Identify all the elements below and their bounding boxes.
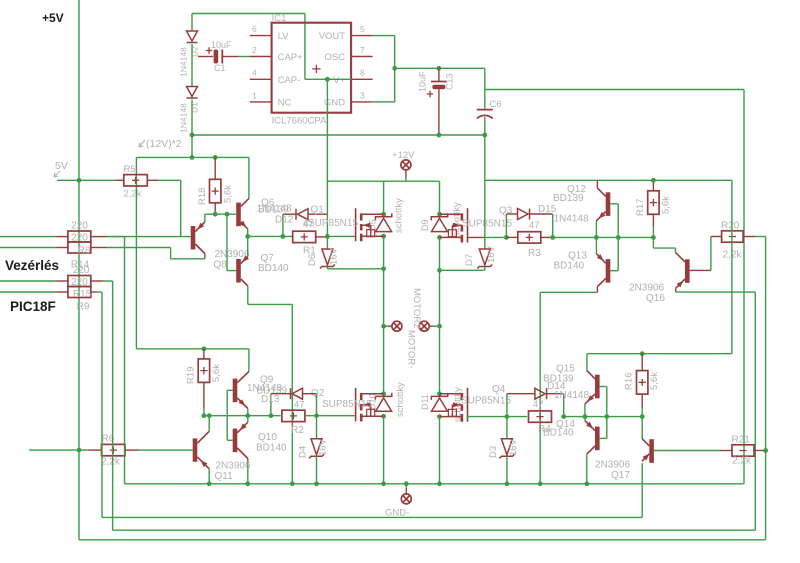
- wire R15 output corner to bus2 column: [103, 280, 113, 282]
- resistor R8 220: [68, 231, 91, 242]
- wire GND pad stub: [405, 484, 407, 488]
- transistor Q17 2N3906: [649, 439, 654, 463]
- svg-text:16V: 16V: [318, 438, 329, 456]
- transistor Q13 BD140: [606, 259, 611, 283]
- resistor R17 5,6k: [652, 180, 654, 191]
- wire R1 right to gate column: [316, 236, 328, 238]
- junction 12V line to C6 column: [482, 133, 487, 138]
- wire jog from control resistor R14 output: [107, 247, 171, 249]
- MOSFET substrate arrow: [452, 404, 462, 406]
- wire Q16 base column up to R20: [710, 237, 712, 271]
- svg-text:IC1: IC1: [272, 13, 287, 24]
- diode D1 1N4148: [187, 87, 198, 99]
- svg-text:220: 220: [71, 221, 88, 232]
- junction R18 top: [213, 155, 218, 160]
- svg-text:Q10: Q10: [258, 432, 277, 443]
- diode D12 1N4148: [283, 213, 296, 215]
- wire Q3 gate lead: [468, 236, 485, 238]
- wire emitter column bottom-left pair: [247, 409, 249, 423]
- wire D1 to (12V)*2 node: [191, 100, 193, 136]
- svg-text:ICL7660CPA: ICL7660CPA: [272, 116, 327, 127]
- wire gate column IC pin8 down to +12V rail: [326, 79, 328, 214]
- wire motor pad2 stub: [433, 325, 440, 327]
- junction VOUT branch: [392, 66, 397, 71]
- svg-text:2N3906: 2N3906: [216, 461, 251, 472]
- svg-text:C6: C6: [490, 99, 502, 110]
- wire +12V rail: [327, 180, 439, 182]
- zener diode D3 16V: [499, 439, 514, 459]
- junction Q1 source node: [381, 234, 386, 239]
- transistor Q6 BD139: [236, 203, 241, 227]
- junction R3 right: [550, 235, 555, 240]
- svg-text:1N4148: 1N4148: [554, 214, 589, 225]
- junction GND rail Q7 column: [290, 481, 295, 486]
- wire +5V rail top-left vertical: [78, 0, 80, 180]
- wire Q12 collector to rail: [596, 180, 598, 188]
- diode D14 1N4148: [507, 393, 521, 395]
- wire Q15 collector up: [586, 354, 588, 371]
- capacitor C6: [477, 108, 493, 110]
- svg-text:1N4148: 1N4148: [257, 204, 292, 215]
- transistor Q15 BD139: [595, 375, 600, 399]
- wire R20 right to edge column: [755, 236, 765, 238]
- MOSFET source lead: [440, 236, 462, 238]
- junction R16 bottom / Q17 emitter: [640, 414, 645, 419]
- wire Q11 collector to GND rail: [208, 469, 210, 484]
- wire gate line to driver bases: [564, 416, 643, 418]
- svg-text:Q17: Q17: [611, 470, 630, 481]
- wire D4 to GND rail: [316, 456, 318, 484]
- junction 12V line at D column: [190, 155, 195, 160]
- junction GND rail Q10 collector: [245, 481, 250, 486]
- wire jog vertical: [170, 248, 172, 259]
- wire Q8 emitter node line: [205, 213, 236, 215]
- svg-text:R17: R17: [635, 199, 646, 216]
- MOSFET gate bar: [355, 208, 357, 241]
- wire C6 column upper: [484, 68, 486, 108]
- svg-text:schottky: schottky: [395, 382, 406, 417]
- wire Q10 collector to GND rail: [247, 459, 249, 463]
- resistor R8 220 lead: [56, 236, 68, 238]
- MOSFET drain lead: [361, 213, 383, 215]
- junction Q4 source node: [437, 414, 442, 419]
- svg-text:220: 220: [71, 233, 88, 244]
- svg-text:16V: 16V: [508, 438, 519, 456]
- svg-text:1N4148: 1N4148: [179, 47, 189, 77]
- wire motor pad1 stub: [384, 325, 388, 327]
- wire Q4 source to GND rail: [439, 417, 441, 484]
- svg-text:R18: R18: [197, 188, 208, 205]
- MOSFET drain lead: [440, 393, 462, 395]
- wire emitter column right pair: [595, 221, 597, 254]
- MOSFET drain lead: [440, 213, 462, 215]
- svg-text:D6: D6: [307, 254, 318, 266]
- resistor R6 2,2k: [102, 444, 126, 455]
- svg-text:D4: D4: [298, 446, 309, 458]
- schottky diode D5: [375, 213, 391, 231]
- svg-text:SUP85N15: SUP85N15: [462, 219, 512, 230]
- wire (12V)*2 column down to R19 feed: [135, 157, 137, 348]
- svg-text:47: 47: [529, 220, 540, 231]
- wire Q1 source to motor: [383, 236, 385, 326]
- junction GND rail Q13 column: [538, 481, 543, 486]
- wire C1 to IC pin 2: [222, 56, 238, 58]
- svg-text:2,2k: 2,2k: [124, 189, 142, 200]
- junction C13 bottom: [437, 133, 442, 138]
- wire Q17 base line to R21: [654, 450, 720, 452]
- wire Q7 collector down: [247, 286, 249, 305]
- IC1 top net wire from D2 to IC V+ column: [192, 13, 305, 15]
- wire R19 bottom to base line: [203, 408, 205, 416]
- svg-text:Q4: Q4: [492, 384, 506, 395]
- junction R3 line left: [504, 235, 509, 240]
- svg-text:R2: R2: [291, 425, 304, 436]
- wire C6 bottom to Q12 rail: [484, 117, 486, 180]
- svg-text:D12: D12: [275, 215, 294, 226]
- svg-text:D2: D2: [190, 46, 200, 57]
- wire R6 output to Q11 base: [139, 449, 193, 451]
- wire gate column down through D6: [326, 214, 328, 249]
- svg-text:47: 47: [294, 400, 305, 411]
- svg-text:5,6k: 5,6k: [223, 185, 234, 203]
- svg-text:Q1: Q1: [311, 205, 325, 216]
- svg-text:Q11: Q11: [215, 471, 234, 482]
- wire Q8 collector to jog: [171, 258, 205, 260]
- wire R8 output corner to GND rail column: [107, 236, 125, 238]
- svg-text:6: 6: [252, 24, 257, 34]
- wire D7 to source line right: [484, 267, 486, 271]
- MOSFET source lead: [361, 235, 383, 237]
- wire motor column left lower: [383, 326, 385, 394]
- junction emitters at gate line: [245, 413, 250, 418]
- junction GND rail pad: [404, 481, 409, 486]
- wire bus2 Q16 collector return: [113, 529, 756, 531]
- junction GND rail Q11 collector: [207, 481, 212, 486]
- MOSFET substrate arrow: [361, 224, 371, 226]
- connector motor pad 2: [419, 321, 429, 331]
- svg-text:2N3906: 2N3906: [629, 283, 664, 294]
- wire Q15 base stub: [600, 386, 607, 388]
- wire R18 bottom to Q8 emitter line: [214, 212, 216, 215]
- wire bus3 R21 return: [79, 539, 766, 541]
- svg-text:5,6k: 5,6k: [661, 196, 672, 214]
- wire D13 loop left column: [270, 394, 272, 416]
- transistor Q11 2N3906: [193, 438, 198, 461]
- zener diode D6 16V: [320, 249, 335, 269]
- wire right column rail to R16 line: [731, 180, 733, 353]
- wire drain column Q3 right corner: [439, 181, 441, 214]
- wire Q14 collector to GND rail: [586, 454, 588, 484]
- wire R5 output to Q8 base: [159, 179, 181, 181]
- svg-text:MOTOR-: MOTOR-: [406, 330, 417, 368]
- wire (12V)*2 horizontal line: [192, 134, 485, 136]
- svg-text:D13: D13: [261, 394, 280, 405]
- junction source-zener line left: [381, 266, 386, 271]
- junction GND rail D4: [314, 481, 319, 486]
- svg-text:Q8: Q8: [214, 260, 228, 271]
- svg-text:16V: 16V: [329, 247, 340, 265]
- svg-text:R16: R16: [624, 373, 635, 390]
- junction R16 top: [640, 351, 645, 356]
- svg-text:16V: 16V: [486, 245, 497, 263]
- IC1 pin 3 GND: [351, 101, 373, 103]
- svg-text:MOTOR2: MOTOR2: [411, 288, 422, 328]
- MOSFET channel: [360, 213, 363, 220]
- wire drive line emitters to R1: [248, 235, 293, 237]
- wire source line right half: [440, 269, 485, 271]
- wire zener D3 column upper: [506, 417, 508, 439]
- wire base column Q9 Q10: [226, 390, 228, 440]
- wire Q13 collector column to GND rail: [539, 292, 541, 484]
- svg-text:CAP-: CAP-: [278, 75, 301, 86]
- svg-text:D11: D11: [420, 394, 430, 410]
- wire Q12 rail from C6 column: [485, 179, 732, 181]
- op-amp IC1 ICL7660CPA box: [272, 23, 352, 113]
- svg-text:10uF: 10uF: [211, 40, 232, 50]
- wire gate drive to Q1 gate: [327, 235, 355, 237]
- MOSFET substrate arrow: [361, 404, 371, 406]
- resistor R1 47: [293, 231, 316, 242]
- wire gate line R2 to Q2 gate: [305, 415, 356, 417]
- wire R17 bottom to drive line: [652, 226, 654, 237]
- svg-text:5: 5: [360, 24, 365, 34]
- svg-text:220: 220: [71, 277, 88, 288]
- svg-text:OSC: OSC: [325, 52, 346, 63]
- MOSFET channel: [461, 393, 464, 400]
- svg-text:5V: 5V: [55, 160, 68, 172]
- resistor R9 220 lead: [56, 291, 68, 293]
- junction Q1 drain node: [381, 212, 386, 217]
- svg-text:CAP+: CAP+: [278, 52, 304, 63]
- svg-text:BD139: BD139: [543, 374, 574, 385]
- svg-text:C13: C13: [445, 73, 455, 90]
- resistor R14 220 lead: [56, 247, 68, 249]
- wire Q12 base stub: [610, 203, 618, 205]
- resistor R15 220: [68, 276, 91, 287]
- wire Q7 collector jog horizontal: [248, 303, 292, 305]
- schottky diode D9: [431, 213, 447, 231]
- junction GND rail Q4 source: [437, 481, 442, 486]
- wire motor column right lower: [439, 326, 441, 394]
- svg-text:1N4148: 1N4148: [554, 390, 589, 401]
- svg-text:R15: R15: [73, 289, 92, 300]
- resistor R15 220 lead: [56, 280, 68, 282]
- junction base column at drive line: [616, 235, 621, 240]
- resistor R9 220: [68, 287, 91, 298]
- wire D14 loop left column: [506, 394, 508, 417]
- MOSFET channel: [360, 393, 363, 400]
- wire +12V stub to rail: [405, 178, 407, 182]
- svg-text:3: 3: [360, 90, 365, 100]
- resistor R20 2,2k: [711, 236, 722, 238]
- resistor R21 2,2k: [720, 450, 732, 452]
- wire Q13 collector down: [596, 287, 598, 293]
- svg-text:+12V: +12V: [392, 150, 415, 161]
- wire D column top: [191, 14, 193, 32]
- svg-text:Q16: Q16: [646, 293, 665, 304]
- MOSFET source lead: [361, 415, 383, 417]
- wire bus1 Q17 collector return: [102, 516, 642, 518]
- junction Q3 source node: [437, 235, 442, 240]
- wire Q16 emitter column down: [754, 292, 756, 530]
- junction source-zener line right: [437, 268, 442, 273]
- wire VOUT branch to C13/C6: [395, 67, 485, 69]
- junction motor left: [381, 324, 386, 329]
- wire Q3 source to motor: [439, 237, 441, 326]
- transistor Q8 2N3906: [191, 226, 196, 250]
- svg-text:Vezérlés: Vezérlés: [5, 258, 59, 273]
- svg-text:V+: V+: [333, 75, 345, 86]
- wire drain column Q1: [383, 181, 385, 214]
- svg-text:(12V)*2: (12V)*2: [146, 138, 182, 150]
- junction Q11 emitter: [207, 413, 212, 418]
- wire 12V aux corner down to Q6 collector: [248, 157, 250, 198]
- connector motor pad 1: [392, 321, 402, 331]
- junction R19 base line: [202, 413, 207, 418]
- wire D3 to GND rail: [506, 456, 508, 484]
- MOSFET channel: [461, 213, 464, 220]
- IC1 pin 6 LV: [250, 35, 272, 37]
- wire gate column right down from rail: [484, 180, 486, 249]
- capacitor C1 10uF: [198, 56, 213, 58]
- svg-text:BD140: BD140: [256, 443, 287, 454]
- junction D4 column at gate line: [314, 413, 319, 418]
- junction C13 top: [437, 66, 442, 71]
- wire base column Q12 Q13: [617, 204, 619, 271]
- MOSFET source lead: [440, 416, 462, 418]
- wire D column to 12V aux line: [191, 135, 193, 157]
- junction emitters at drive line: [245, 234, 250, 239]
- wire D14 loop right column: [563, 394, 565, 417]
- junction D12 loop left: [281, 234, 286, 239]
- transistor Q14 BD140: [595, 427, 600, 451]
- IC1 pin 4 CAP-: [250, 78, 272, 80]
- zener diode D7 16V: [477, 249, 492, 269]
- svg-text:R3: R3: [528, 248, 541, 259]
- junction pin8 to gate column: [325, 77, 330, 82]
- wire control input 4 from left edge: [0, 291, 56, 293]
- transistor Q10 BD140: [233, 429, 238, 453]
- wire Q14 base stub: [600, 437, 607, 439]
- svg-text:5,6k: 5,6k: [649, 372, 660, 390]
- junction emitter column bottom right: [583, 414, 588, 419]
- node (12V)*2 junction: [190, 133, 195, 138]
- IC1 pin 2 CAP+: [250, 56, 272, 58]
- junction gate column at R1: [325, 234, 330, 239]
- junction R6 left: [77, 448, 82, 453]
- svg-text:BD140: BD140: [554, 261, 585, 272]
- svg-text:4: 4: [252, 68, 257, 78]
- svg-text:R8: R8: [78, 246, 91, 257]
- junction Q12 Q13 emitter column at drive line: [594, 235, 599, 240]
- wire Q6 Q7 emitter column: [247, 229, 249, 257]
- wire Q7 collector column to GND rail: [291, 304, 293, 483]
- junction R4 right: [561, 414, 566, 419]
- junction R18 bottom: [213, 212, 218, 217]
- junction GND rail Q2 source: [381, 481, 386, 486]
- svg-text:+5V: +5V: [42, 11, 64, 25]
- wire emitter column bottom right pair: [584, 404, 586, 421]
- svg-text:SUP85N15: SUP85N15: [322, 399, 372, 410]
- wire 12V aux line y157: [136, 156, 249, 158]
- junction R19 top: [202, 346, 207, 351]
- wire Q16 emitter line: [675, 288, 677, 292]
- junction 5V column: [77, 178, 82, 183]
- wire between D2 and D1: [191, 44, 193, 87]
- wire control input 3 from left edge: [0, 280, 56, 282]
- wire Q15 collector feed line: [587, 353, 732, 355]
- resistor R5 2,2k: [115, 179, 124, 181]
- IC1 pin 8 V+: [351, 78, 373, 80]
- junction R21 right at edge column: [763, 448, 768, 453]
- junction Q2 source node: [381, 414, 386, 419]
- wire R16 bottom to gate line: [641, 408, 643, 417]
- wire Q17 collector down to bus1: [641, 463, 643, 517]
- IC1 pin 5 VOUT: [351, 35, 373, 37]
- wire base line to base column and gate line: [204, 415, 281, 417]
- svg-text:D3: D3: [488, 446, 499, 458]
- svg-text:SUP85N15: SUP85N15: [308, 218, 358, 229]
- wire base column bottom right pair: [606, 387, 608, 439]
- junction Q3 drain node: [437, 212, 442, 217]
- schottky diode D10: [375, 393, 391, 411]
- wire Q10 base stub: [227, 439, 232, 441]
- svg-text:5,6k: 5,6k: [211, 364, 222, 382]
- diode D13 1N4148: [271, 393, 291, 395]
- wire control input 1 from left edge: [0, 236, 56, 238]
- wire Q2 source to GND rail: [383, 416, 385, 484]
- wire control input 2 from left edge: [0, 247, 56, 249]
- power GND- pad symbol: [401, 494, 411, 504]
- svg-text:8: 8: [360, 68, 365, 78]
- zener diode D4 16V: [309, 439, 324, 459]
- svg-text:R19: R19: [186, 367, 197, 384]
- wire GND rail: [125, 483, 744, 485]
- svg-text:D9: D9: [420, 219, 430, 231]
- svg-text:VOUT: VOUT: [319, 31, 346, 42]
- junction D13 loop left: [269, 413, 274, 418]
- wire R3 output to driver pair: [553, 236, 654, 238]
- svg-text:BD140: BD140: [543, 428, 574, 439]
- junction base column top: [225, 212, 230, 217]
- svg-text:R20: R20: [721, 221, 740, 232]
- svg-text:D7: D7: [464, 254, 475, 266]
- wire Q17 emitter column: [641, 417, 643, 439]
- diode D2 1N4148: [187, 31, 198, 43]
- svg-text:10uF: 10uF: [418, 71, 428, 92]
- svg-text:1: 1: [252, 90, 257, 100]
- wire corner down to Q9 collector: [248, 349, 250, 372]
- wire bus3 left column from R6: [78, 450, 80, 540]
- capacitor C13 10uF polarized: [438, 68, 440, 81]
- transistor Q9 BD139: [233, 379, 238, 403]
- wire D6 to source line: [326, 267, 328, 269]
- wire Q7 base stub: [227, 270, 236, 272]
- wire Q9 base stub: [227, 389, 232, 391]
- junction GND rail D3: [505, 481, 510, 486]
- transistor Q16 2N3906: [685, 259, 690, 283]
- transistor Q7 BD140: [236, 259, 241, 283]
- wire R3 line from gate column: [485, 236, 507, 238]
- wire Q13 base stub: [610, 270, 618, 272]
- resistor R19 5,6k: [203, 349, 205, 359]
- MOSFET drain lead: [361, 393, 383, 395]
- svg-text:C1: C1: [214, 63, 226, 73]
- wire R6 line: [29, 449, 88, 451]
- IC1 pin 1 NC: [250, 101, 272, 103]
- schottky diode D11: [431, 393, 447, 411]
- svg-text:2: 2: [252, 45, 257, 55]
